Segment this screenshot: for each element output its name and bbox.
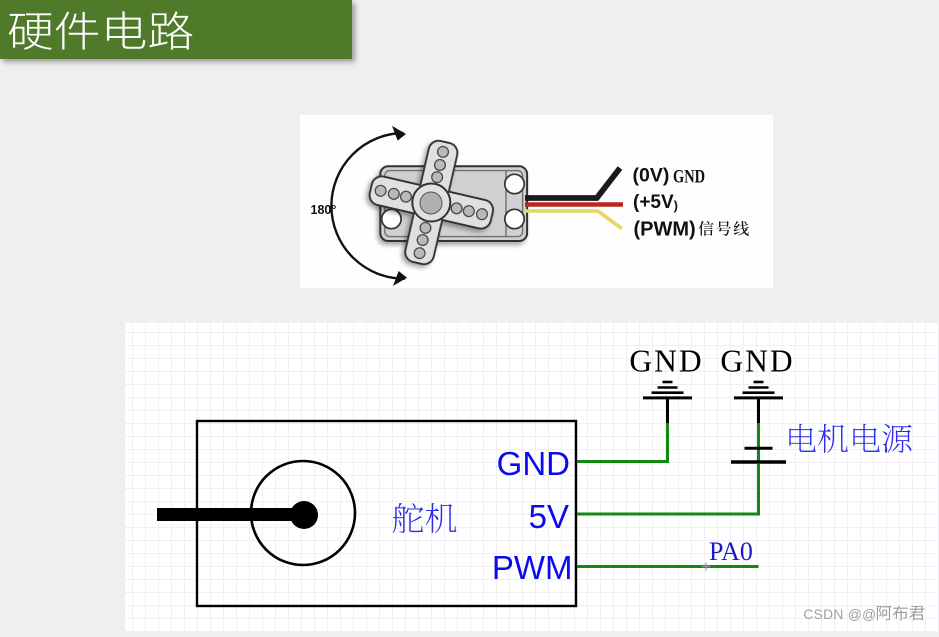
title text 硬件电路 — [9, 11, 193, 49]
servo shaft dot — [290, 501, 318, 529]
rotation arc arrow — [331, 126, 408, 286]
ground symbol 1 — [643, 382, 692, 423]
battery label 电机电源 — [789, 424, 911, 453]
servo wire black 0V — [525, 168, 620, 198]
svg-text:PWM: PWM — [492, 549, 573, 586]
svg-text:(+5V): (+5V) — [633, 192, 678, 213]
svg-text:(PWM): (PWM) — [634, 219, 696, 241]
watermark CSDN — [802, 606, 939, 635]
PWM junction tick — [702, 563, 710, 571]
svg-text:PA0: PA0 — [709, 537, 753, 566]
ground symbol 2 — [734, 382, 783, 423]
battery top wire — [757, 423, 760, 462]
schematic panel — [125, 323, 939, 632]
servo photo panel — [300, 115, 773, 288]
horn hub — [412, 184, 450, 222]
servo component box — [197, 421, 576, 606]
servo horn (cross) — [357, 128, 506, 277]
GND net wire — [577, 423, 668, 462]
svg-text:GND: GND — [673, 166, 705, 187]
svg-text:5V: 5V — [529, 498, 569, 535]
mounting hole bottom-left — [382, 209, 401, 228]
svg-text:GND: GND — [497, 445, 570, 482]
svg-text:GND: GND — [720, 344, 794, 379]
servo wire red +5V — [525, 202, 623, 207]
mounting hole bottom-right — [505, 209, 524, 228]
servo output circle — [251, 461, 355, 565]
svg-text:180°: 180° — [311, 203, 337, 217]
servo body — [380, 166, 527, 241]
PWM net wire — [577, 565, 759, 568]
servo wire yellow PWM — [525, 211, 622, 229]
battery cell B1 — [731, 448, 786, 462]
component name 舵机 — [393, 503, 457, 533]
mounting hole top-right — [505, 174, 524, 193]
svg-text:GND: GND — [629, 344, 703, 379]
title banner — [0, 0, 352, 59]
svg-text:(0V): (0V) — [633, 165, 670, 187]
horn holes — [362, 134, 500, 272]
svg-text:CSDN @@: CSDN @@ — [803, 607, 876, 622]
servo arm — [157, 508, 304, 521]
5V net wire — [577, 464, 759, 514]
